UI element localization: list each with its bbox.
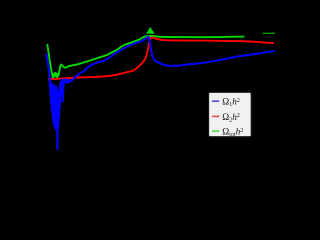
red curve Omega_2 h^2 (48, 37, 274, 79)
legend line 3 (green) (212, 130, 219, 132)
legend line 2 (red) (212, 115, 219, 117)
green curve Omega_tot h^2 (47, 36, 244, 78)
legend box (209, 92, 252, 138)
legend line 1 (blue) (212, 100, 219, 102)
green tail segment (263, 32, 275, 34)
green triangle marker at peak (146, 27, 155, 34)
blue curve Omega_1 h^2 (46, 37, 274, 149)
